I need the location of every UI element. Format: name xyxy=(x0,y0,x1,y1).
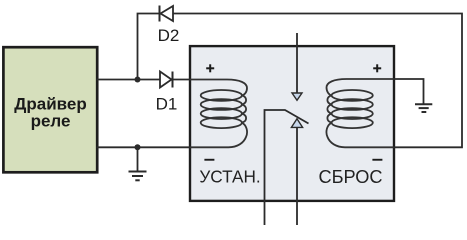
contact fixed arrow (down) xyxy=(292,93,302,100)
wire: D1 cathode into relay coil SET plus xyxy=(173,79,191,81)
wire: contact common terminal (top) xyxy=(296,33,298,93)
wire: driver bottom output to relay coil SET minus xyxy=(97,146,191,148)
svg-text:СБРОС: СБРОС xyxy=(318,167,382,187)
driver block "Драйвер реле" xyxy=(3,47,97,172)
svg-text:D2: D2 xyxy=(158,26,180,45)
svg-text:D1: D1 xyxy=(156,94,178,113)
contact moving arrow (up) xyxy=(291,119,302,128)
wire: contact bottom terminal xyxy=(296,127,298,225)
coil SET (УСТАН.) xyxy=(190,80,247,148)
coil RESET (СБРОС) xyxy=(326,79,393,147)
wire: RESET plus to ground xyxy=(394,79,424,104)
relay box xyxy=(190,46,394,201)
wire: driver top output to D1 anode xyxy=(97,79,161,81)
ground (left) xyxy=(129,147,147,180)
label - (RESET) xyxy=(372,159,382,161)
label + (SET) xyxy=(206,64,214,72)
label - (SET) xyxy=(204,159,214,161)
wire: contact movable arm and left terminal xyxy=(265,110,309,225)
label + (RESET) xyxy=(373,64,381,72)
node junction dot xyxy=(135,77,141,83)
svg-text:реле: реле xyxy=(31,112,71,131)
wire: branch up to D2 xyxy=(138,14,160,80)
ground (right) xyxy=(415,104,432,112)
wire: D2 anode to top-right corner, down and into relay coil RESET minus xyxy=(173,14,462,148)
diode D1 xyxy=(160,72,173,88)
diode D2 xyxy=(160,6,174,22)
svg-text:УСТАН.: УСТАН. xyxy=(199,166,260,186)
node junction dot xyxy=(135,144,141,150)
